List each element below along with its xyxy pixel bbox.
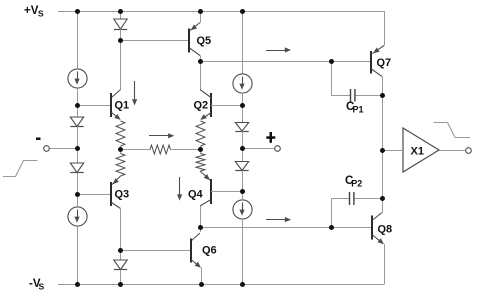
svg-text:Q6: Q6 [202,245,217,257]
svg-text:X1: X1 [411,146,424,158]
svg-text:Q2: Q2 [194,100,209,112]
svg-text:Q4: Q4 [188,189,204,201]
svg-text:Q3: Q3 [115,189,130,201]
svg-text:P1: P1 [353,104,364,114]
svg-text:Q5: Q5 [197,35,212,47]
svg-text:Q1: Q1 [115,100,130,112]
svg-text:Q7: Q7 [377,57,392,69]
svg-text:+V: +V [24,5,39,17]
svg-text:Q8: Q8 [378,224,393,236]
svg-text:S: S [38,9,44,19]
svg-text:P2: P2 [351,178,362,188]
svg-text:S: S [39,282,45,292]
